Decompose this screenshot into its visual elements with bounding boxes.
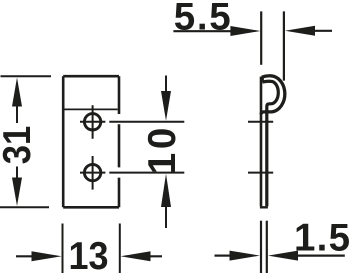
side view: hook tip end face bbox=[261, 77, 264, 82]
dim 10 arrow up bbox=[161, 174, 171, 207]
dim 31 arrow down bbox=[12, 178, 22, 207]
extension line from hole 2 bbox=[109, 172, 184, 174]
svg-text:5.5: 5.5 bbox=[174, 0, 231, 39]
dim 5.5 underline bbox=[173, 30, 231, 32]
svg-text:1.5: 1.5 bbox=[294, 217, 350, 260]
dim 13 extension line left bbox=[62, 224, 64, 273]
dim 5.5 arrow right bbox=[230, 26, 260, 36]
dim 1.5 extension line right bbox=[266, 221, 268, 273]
dim 1.5 left arrow tail bbox=[215, 255, 231, 257]
side view: strip left edge (silhouette from hook tip to bottom) bbox=[260, 77, 263, 207]
dim 5.5 right arrow tail bbox=[315, 30, 333, 32]
dim 31 arrow up bbox=[12, 78, 22, 107]
dim 13 extension line right bbox=[119, 224, 121, 273]
dim 10 line top tail bbox=[165, 76, 167, 92]
dim 1.5 arrow left bbox=[268, 251, 298, 261]
dim 10 arrow down bbox=[161, 91, 171, 121]
bend line bbox=[65, 108, 118, 110]
dim 31 extension line bottom bbox=[0, 206, 49, 208]
dim 1.5 right arrow tail bbox=[298, 255, 345, 257]
svg-text:31: 31 bbox=[0, 126, 39, 165]
side view: curl outer contour with elbow into strip left edge bbox=[261, 76, 285, 115]
side view: curl inner contour into strip right edge bbox=[262, 81, 278, 206]
svg-text:13: 13 bbox=[69, 235, 109, 273]
hole 2 circle bbox=[84, 164, 100, 180]
side view: strip bottom cap bbox=[260, 206, 268, 208]
dim 5.5 extension line left bbox=[260, 11, 262, 64]
dim 31 line segments bbox=[16, 106, 18, 179]
extension line from hole 1 bbox=[109, 121, 184, 123]
hole 2 crosshair bbox=[80, 156, 105, 190]
plate outline (front view) bbox=[63, 76, 119, 207]
dim 1.5 extension line left bbox=[260, 221, 262, 273]
dim 5.5 extension line right bbox=[283, 11, 285, 80]
hole 1 circle bbox=[84, 114, 100, 130]
dim 10 line bottom tail bbox=[165, 207, 167, 228]
hole 1 crosshair bbox=[80, 105, 105, 139]
dim 1.5 arrow right bbox=[230, 251, 260, 261]
dim 13 arrow right bbox=[32, 251, 62, 261]
dim 13 tails bbox=[16, 255, 162, 257]
dim 31 extension line top bbox=[1, 75, 52, 77]
dim 5.5 arrow left bbox=[285, 26, 315, 36]
side view: hole 1 centerline bbox=[248, 121, 273, 123]
dim 13 arrow left bbox=[121, 251, 151, 261]
side view: hole 2 centerline bbox=[248, 172, 273, 174]
plate right edge segments with gaps bbox=[118, 76, 121, 207]
